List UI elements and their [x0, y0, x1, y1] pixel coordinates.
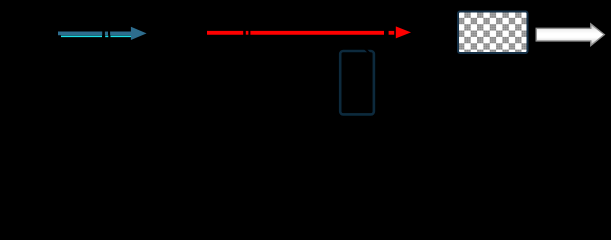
node: navy rectangle outline [340, 51, 374, 114]
arrowhead of arrow A1 [131, 27, 147, 40]
wire: cyan dashed underline of arrow A1 [61, 35, 131, 37]
wire: steel-blue dashed shaft of arrow A1 [58, 32, 132, 36]
arrow A3: gray 3D block arrow [536, 24, 604, 46]
arrowhead of arrow A2 [396, 26, 411, 38]
node: transparency checkerboard box [458, 12, 528, 54]
wire: red dashed arrow A2 shaft [207, 31, 394, 35]
notch in rectangle top edge [365, 49, 370, 54]
